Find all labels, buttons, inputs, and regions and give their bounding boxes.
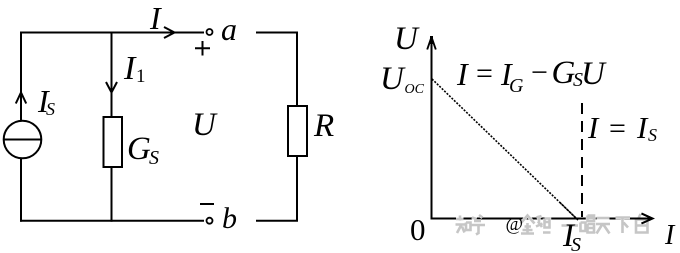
plus sign at node a	[195, 41, 210, 56]
graph vertical axis U	[431, 40, 433, 220]
svg-text:=: =	[476, 57, 493, 90]
svg-text:S: S	[648, 125, 657, 145]
watermark char 知	[456, 216, 471, 234]
label I = Is (on dashed line)	[587, 110, 657, 145]
svg-text:R: R	[313, 108, 334, 144]
svg-text:U: U	[394, 21, 420, 57]
wire middle branch upper	[111, 32, 113, 118]
minus sign at node b	[200, 203, 214, 205]
label Uoc	[380, 61, 425, 97]
node a terminal circle	[207, 29, 213, 35]
svg-text:S: S	[46, 99, 55, 119]
node b terminal circle	[207, 218, 213, 224]
svg-text:I: I	[456, 56, 469, 92]
redraw: horizontal axis arrow zone	[633, 218, 651, 220]
svg-text:G: G	[509, 75, 524, 97]
svg-text:−: −	[531, 56, 548, 89]
label Is (source current)	[37, 83, 55, 119]
svg-text:1: 1	[136, 66, 146, 87]
wire bottom left	[20, 220, 204, 222]
graph horizontal axis arrowhead	[642, 214, 653, 224]
arrow of current I (right) on top wire	[164, 27, 175, 38]
watermark gray strokes	[456, 214, 648, 235]
dashed line at I = Is	[581, 103, 583, 217]
conductance GS box	[104, 117, 123, 167]
watermark char 鸡	[536, 216, 551, 233]
watermark char 唱	[581, 216, 595, 233]
label I1	[123, 50, 146, 87]
svg-text:I: I	[149, 0, 162, 36]
svg-text:b: b	[222, 202, 237, 235]
label Is below axis	[562, 218, 581, 253]
svg-text:@: @	[506, 214, 524, 235]
wire left vertical upper	[20, 32, 22, 121]
svg-text:a: a	[221, 11, 237, 47]
watermark (gray, imitating zhihu 知乎 @金鸡一唱天下白): white halos first	[456, 214, 648, 235]
svg-text:S: S	[571, 234, 581, 253]
svg-text:0: 0	[410, 212, 426, 247]
wire top (node a feed)	[21, 32, 204, 34]
graph vertical axis arrowhead	[427, 37, 436, 50]
redraw: diagonal tail over watermark	[560, 203, 578, 220]
watermark char 天	[596, 218, 610, 234]
arrow of source current Is (up)	[16, 93, 26, 104]
resistor R box	[288, 106, 307, 156]
wire left vertical lower	[20, 158, 22, 221]
svg-text:=: =	[609, 112, 626, 145]
svg-text:U: U	[192, 107, 218, 143]
load line (diagonal)	[432, 79, 578, 220]
svg-text:U: U	[581, 56, 607, 92]
wire middle branch lower	[111, 167, 113, 222]
label Gs	[127, 131, 159, 169]
equation I = IG - GSU	[456, 55, 607, 97]
svg-text:G: G	[552, 55, 576, 91]
current source IS (circle with bar)	[4, 121, 42, 159]
svg-text:OC: OC	[405, 82, 425, 97]
watermark char 金	[521, 216, 535, 234]
svg-text:S: S	[149, 147, 159, 169]
watermark char 乎	[471, 215, 485, 235]
watermark char 下	[616, 218, 631, 234]
wire bottom right from R	[256, 156, 297, 221]
watermark char 一	[562, 224, 579, 227]
arrow of current I1 (down) on middle branch	[106, 82, 117, 93]
svg-text:I: I	[664, 220, 676, 251]
svg-text:I: I	[123, 50, 137, 87]
svg-text:I: I	[587, 110, 600, 145]
svg-text:G: G	[127, 131, 151, 167]
watermark char 白	[636, 214, 648, 233]
graph horizontal axis I	[432, 218, 647, 220]
wire top right to R	[256, 33, 297, 107]
svg-text:U: U	[380, 61, 406, 97]
